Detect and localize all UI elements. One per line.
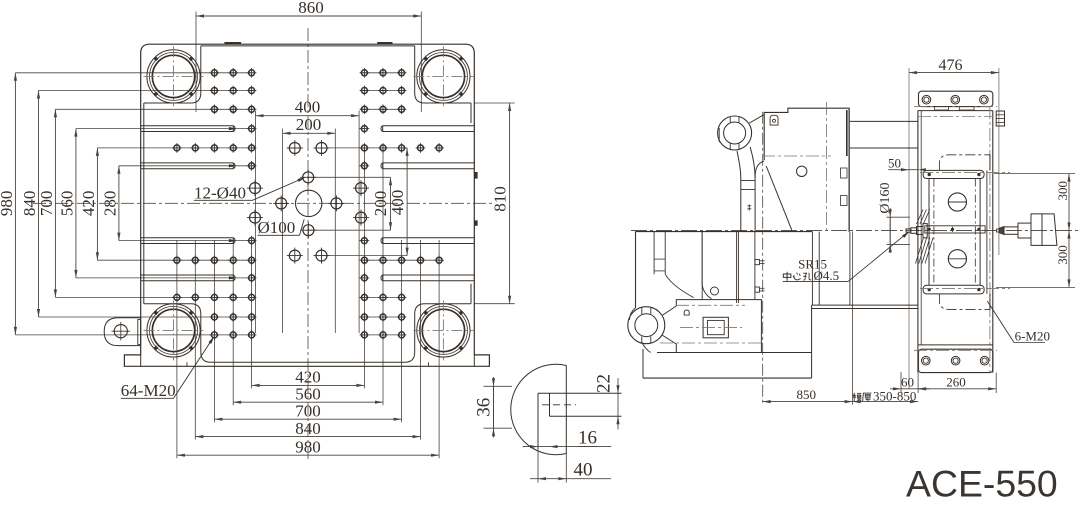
svg-text:64-M20: 64-M20 <box>121 381 176 400</box>
svg-text:Ø160: Ø160 <box>878 182 893 213</box>
svg-text:810: 810 <box>491 186 510 212</box>
svg-text:476: 476 <box>939 57 963 74</box>
svg-text:ACE-550: ACE-550 <box>906 463 1058 505</box>
svg-text:40: 40 <box>574 459 593 480</box>
svg-text:36: 36 <box>474 398 495 417</box>
svg-text:50: 50 <box>888 155 901 170</box>
svg-text:6-M20: 6-M20 <box>1015 328 1050 343</box>
svg-text:300: 300 <box>1055 245 1070 265</box>
svg-text:12-Ø40: 12-Ø40 <box>194 184 246 203</box>
svg-text:Ø100: Ø100 <box>258 218 296 237</box>
svg-text:860: 860 <box>298 0 324 17</box>
svg-text:260: 260 <box>946 374 966 389</box>
svg-text:700: 700 <box>295 401 321 420</box>
svg-text:22: 22 <box>594 374 615 393</box>
svg-text:420: 420 <box>79 191 98 217</box>
svg-text:350-850: 350-850 <box>873 389 916 404</box>
svg-text:850: 850 <box>797 387 817 402</box>
svg-text:980: 980 <box>0 191 16 217</box>
svg-text:700: 700 <box>37 191 56 217</box>
svg-text:Ø4.5: Ø4.5 <box>814 268 840 283</box>
svg-text:280: 280 <box>100 191 119 217</box>
svg-text:60: 60 <box>901 374 914 389</box>
svg-text:400: 400 <box>295 98 321 117</box>
svg-text:300: 300 <box>1055 181 1070 201</box>
svg-text:400: 400 <box>388 190 407 216</box>
svg-text:840: 840 <box>295 419 321 438</box>
svg-text:16: 16 <box>578 427 597 448</box>
svg-text:980: 980 <box>295 437 321 456</box>
svg-text:200: 200 <box>296 115 322 134</box>
svg-text:560: 560 <box>57 191 76 217</box>
